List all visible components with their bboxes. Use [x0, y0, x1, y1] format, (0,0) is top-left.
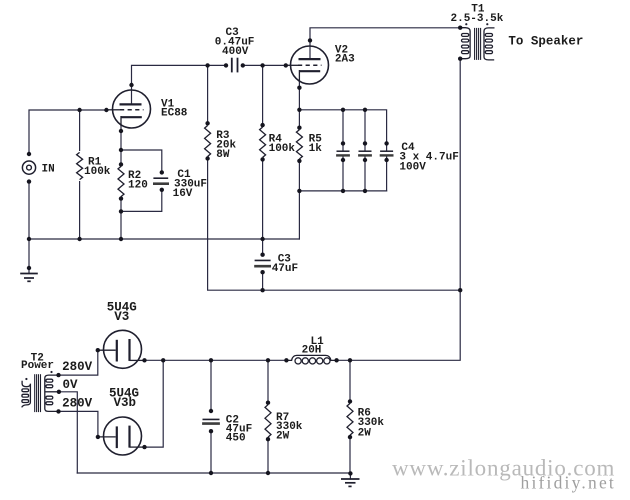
svg-text:100k: 100k [84, 166, 111, 178]
pin T2 tap 280V top [56, 373, 60, 377]
ground stub (R6) [349, 473, 351, 479]
resistor R4 [260, 127, 266, 157]
pin C1 top [160, 170, 164, 174]
pin T1 primary top [458, 26, 462, 30]
pin T1 primary bottom [458, 57, 462, 61]
resistor R3 [205, 126, 211, 157]
wire C4 bank bottom rail [299, 190, 386, 192]
pin IN top [27, 152, 31, 156]
svg-text:0V: 0V [63, 378, 79, 392]
junction ground rail R4 [260, 237, 264, 241]
svg-text:1k: 1k [309, 143, 323, 155]
connector IN [22, 161, 35, 174]
pin R2 bottom [119, 196, 123, 200]
pin V2 anode [308, 38, 312, 42]
pin C4b top [363, 141, 367, 145]
wire T2 280V top tap to V3 [59, 350, 98, 375]
transformer T1 primary winding [460, 28, 470, 59]
PSU bottom 0V rail [77, 472, 350, 474]
junction PSU rail R6 [348, 358, 352, 362]
junction R5 top [297, 108, 301, 112]
wire C4a top lead [342, 110, 344, 151]
wire C1 bottom to R2 line [121, 190, 162, 212]
pin C3b bottom [260, 270, 264, 274]
pin V3 cathode [142, 358, 146, 362]
pin R4 bottom [260, 157, 264, 161]
svg-text:400V: 400V [222, 46, 249, 58]
pin T2 tap 0V [57, 390, 61, 394]
resistor R6 [347, 403, 353, 435]
tube V1 EC88 triode [106, 90, 150, 128]
pin C4b bottom [363, 158, 367, 162]
pin V3 plate [96, 348, 100, 352]
wire V2 anode to top plate rail [310, 28, 460, 59]
wire R3 bottom to B+ rail crossing ground rail [208, 159, 461, 291]
svg-text:120: 120 [128, 180, 148, 192]
wire C2 top lead [210, 360, 212, 411]
junction bottom rail C2 [209, 471, 213, 475]
pin V2 grid [284, 63, 288, 67]
pin R2 top [119, 162, 123, 166]
wire C3b decoupling leads [262, 239, 264, 290]
pin R6 top [348, 399, 352, 403]
ground symbol (R6) [341, 479, 360, 486]
svg-text:8W: 8W [216, 149, 230, 161]
junction R2/C1 bottom [119, 209, 123, 213]
junction C4a top rail [341, 108, 345, 112]
pin R5 bottom [297, 159, 301, 163]
svg-text:EC88: EC88 [161, 108, 188, 120]
transformer T1 phase dots [465, 23, 488, 25]
svg-text:450: 450 [226, 433, 246, 445]
pin R3 bottom [205, 156, 209, 160]
resistor R2 [118, 166, 124, 196]
svg-text:280V: 280V [62, 360, 93, 374]
capacitor C4a [336, 151, 350, 155]
resistor R5 [296, 130, 302, 159]
junction R4 top rail [260, 63, 264, 67]
wire R5 bottom to ground rail [298, 161, 300, 239]
capacitor C3b 47uF [254, 260, 271, 266]
wire C2 bottom lead [210, 431, 212, 473]
wire R4 top lead [262, 65, 264, 125]
wire C4c bottom lead [386, 156, 388, 191]
capacitor C3 coupling [232, 58, 238, 73]
capacitor C4c [380, 151, 394, 155]
pin R7 top [266, 401, 270, 405]
svg-text:V3: V3 [114, 310, 129, 324]
junction B+ rail T1 [458, 288, 462, 292]
wire R4 bottom to ground rail [262, 159, 264, 239]
junction C4b bottom rail [363, 189, 367, 193]
wire V1 anode to top rail [132, 65, 208, 104]
pin R4 top [260, 123, 264, 127]
pin V2 cathode [297, 86, 301, 90]
wire R7 top lead [267, 360, 269, 402]
pin L1 right [334, 358, 338, 362]
pin C4a top [341, 141, 345, 145]
wire IN bottom to ground rail [28, 182, 30, 239]
svg-text:100V: 100V [399, 161, 426, 173]
svg-text:IN: IN [42, 163, 55, 175]
wire T2 280V bottom tap to V3b [59, 411, 98, 437]
junction C4b top rail [363, 108, 367, 112]
wire V2 cathode down [298, 81, 300, 128]
wire C4b bottom lead [364, 156, 366, 191]
svg-text:47uF: 47uF [272, 263, 298, 275]
wire T2 0V tap down [59, 392, 77, 473]
wire R2 bottom to ground rail [120, 199, 122, 239]
wire V1 cathode lead [120, 125, 122, 164]
svg-text:To Speaker: To Speaker [508, 35, 583, 49]
junction R5 bottom rail [297, 189, 301, 193]
pin IN bottom [27, 179, 31, 183]
pin R7 bottom [266, 437, 270, 441]
wire R7 bottom lead [267, 439, 269, 473]
svg-text:20H: 20H [302, 345, 322, 357]
transformer T2 core [35, 374, 41, 412]
svg-text:hifidiy.net: hifidiy.net [521, 473, 616, 493]
svg-text:2A3: 2A3 [335, 54, 355, 66]
pin C4a bottom [341, 158, 345, 162]
junction C4a bottom rail [341, 189, 345, 193]
svg-text:Power: Power [21, 360, 54, 372]
svg-text:100k: 100k [269, 143, 296, 155]
wire C4a bottom lead [342, 156, 344, 191]
wire R3 top lead [207, 65, 209, 123]
pin C2 bottom [209, 429, 213, 433]
wire T1 primary bottom down to B+ and PSU rail [337, 59, 461, 361]
junction PSU rail R7 [266, 358, 270, 362]
wire R6 bottom lead [349, 437, 351, 473]
junction cathode/C1 branch [119, 148, 123, 152]
pin R3 top [205, 121, 209, 125]
ground rail (signal) [29, 238, 299, 240]
ground symbol (input) [20, 274, 38, 282]
wire IN top to V1 grid rail [29, 110, 106, 154]
junction bottom rail R7 [266, 471, 270, 475]
pin T2 tap 280V bottom [56, 409, 60, 413]
pin V1 grid [104, 108, 108, 112]
pin V3b cathode [142, 445, 146, 449]
transformer T1 core [475, 28, 481, 60]
wire V3b cathode riser [145, 360, 164, 447]
wire cathode rail to C4 bank top [299, 110, 386, 151]
tube V3b 5U4G rectifier [98, 417, 145, 455]
junction bottom rail R6 ground [348, 471, 352, 475]
transformer T2 phase dots [25, 371, 52, 380]
pin R6 bottom [348, 435, 352, 439]
svg-text:280V: 280V [62, 397, 93, 411]
wire top rail C3 to R4 and V2 grid [243, 64, 286, 66]
inductor L1 choke [286, 355, 336, 364]
ground stub (input) [28, 239, 30, 274]
pin C4c bottom [384, 158, 388, 162]
capacitor C2 [202, 419, 220, 423]
junction R3 top rail [205, 63, 209, 67]
pin C3b top [260, 253, 264, 257]
wire R6 top lead [349, 360, 351, 401]
pin R5 top [297, 126, 301, 130]
capacitor C4b [358, 151, 372, 155]
wire cathode branch to C1 [121, 150, 162, 172]
pin C3 right [241, 63, 245, 67]
transformer T2 middle tap [45, 391, 59, 393]
pin ground stub [27, 266, 31, 270]
transformer T2 primary winding [22, 381, 31, 408]
resistor R1 [77, 152, 83, 179]
tube V3 5U4G rectifier [98, 330, 145, 368]
pin V3b plate [96, 435, 100, 439]
junction R1 top [77, 108, 81, 112]
junction ground rail R2 [119, 237, 123, 241]
pin L1 left [284, 358, 288, 362]
svg-text:2W: 2W [358, 427, 372, 439]
transformer T2 secondary winding [45, 375, 59, 411]
resistor R7 [265, 405, 271, 438]
wire C3 left lead [208, 64, 226, 66]
pin C3 left [224, 63, 228, 67]
pin V1 anode [129, 83, 133, 87]
junction ground rail IN [27, 237, 31, 241]
svg-text:16V: 16V [173, 188, 193, 200]
junction PSU rail V3b riser [161, 358, 165, 362]
junction B+ rail C3b [260, 288, 264, 292]
junction ground rail R1 [77, 237, 81, 241]
transformer T1 secondary winding [484, 28, 495, 60]
pin V1 cathode [119, 129, 123, 133]
pin C4c top [384, 141, 388, 145]
pin C1 bottom [160, 188, 164, 192]
pin C2 top [209, 409, 213, 413]
junction PSU rail C2 [209, 358, 213, 362]
wire C4b top lead [364, 110, 366, 151]
wire R1 top lead [79, 110, 81, 150]
svg-text:V3b: V3b [114, 396, 137, 410]
PSU output rail V3 to L1 [145, 359, 287, 361]
tube V2 2A3 triode [286, 46, 329, 84]
capacitor C1 [153, 178, 169, 184]
svg-text:2.5-3.5k: 2.5-3.5k [451, 13, 504, 25]
wire R1 bottom lead [79, 182, 81, 239]
svg-text:2W: 2W [276, 431, 290, 443]
